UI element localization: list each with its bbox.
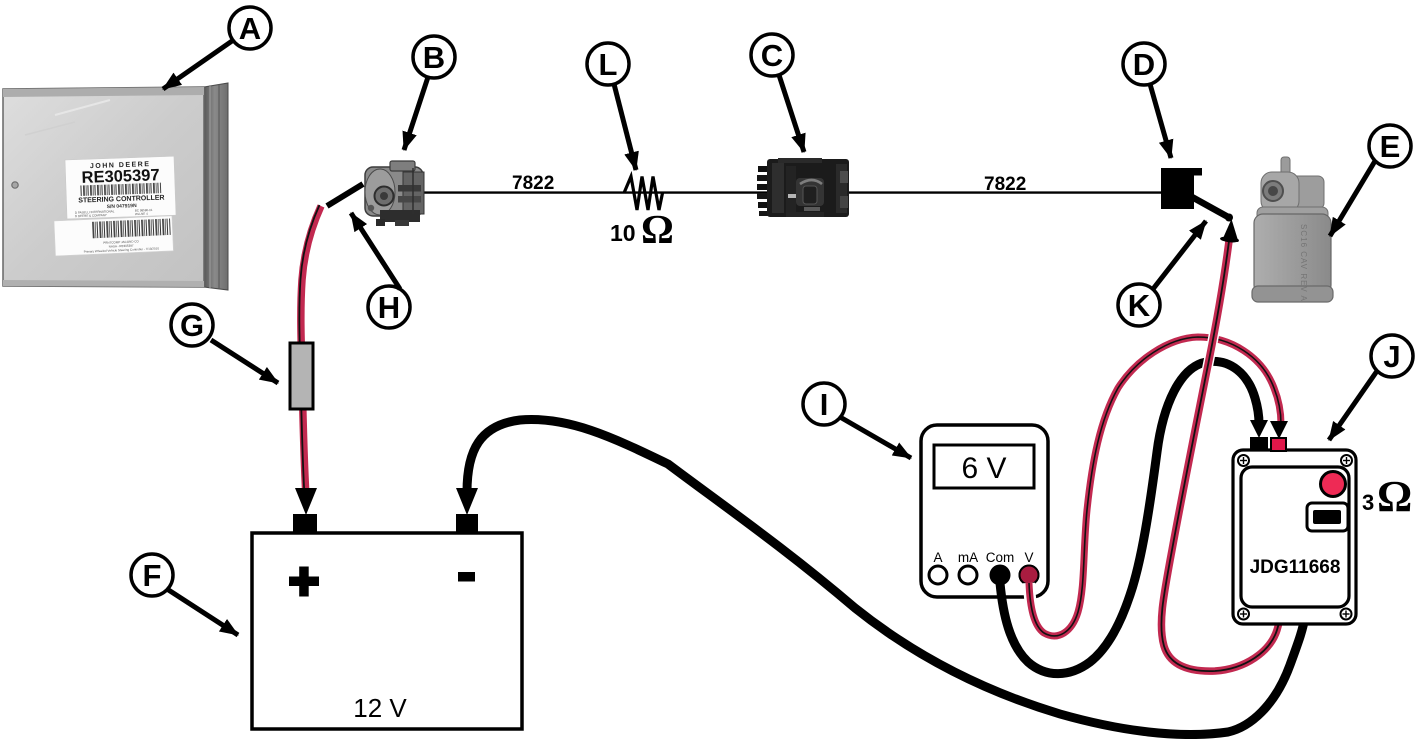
svg-text:J: J xyxy=(1383,339,1400,374)
svg-text:L: L xyxy=(599,47,618,82)
banana plug at K junction xyxy=(1220,219,1239,243)
svg-text:K: K xyxy=(1128,288,1151,323)
connector D (black plug) xyxy=(1161,168,1202,209)
red terminal xyxy=(1271,438,1286,451)
svg-text:3: 3 xyxy=(1362,490,1374,515)
resistor L (zigzag) xyxy=(624,177,663,211)
svg-text:JDG11668: JDG11668 xyxy=(1250,557,1341,578)
minus sign xyxy=(458,572,475,582)
label F xyxy=(131,554,238,635)
label H xyxy=(351,213,410,328)
svg-text:F: F xyxy=(143,558,162,593)
red test lead: V jack to tester red terminal xyxy=(1029,337,1281,636)
arrowhead into battery - terminal xyxy=(456,488,478,515)
connector B (photo) xyxy=(365,161,424,226)
svg-text:Ω: Ω xyxy=(1377,472,1412,521)
black plug in Com jack xyxy=(991,566,1010,585)
fuse holder G xyxy=(290,343,313,409)
black test lead: Com jack to tester black terminal xyxy=(1000,361,1259,673)
plus sign xyxy=(289,577,319,587)
lead stub from D to K junction xyxy=(1192,197,1229,218)
black lead stub from B xyxy=(327,184,363,206)
svg-text:mA: mA xyxy=(958,550,978,565)
connector C (photo) xyxy=(757,158,849,217)
meter jack A xyxy=(929,566,947,584)
black terminal xyxy=(1250,437,1268,451)
label I xyxy=(803,383,911,458)
red plug in V jack xyxy=(1020,566,1039,585)
meter jack V xyxy=(1020,566,1038,584)
svg-text:V: V xyxy=(1024,550,1033,565)
battery positive terminal xyxy=(293,514,317,534)
label K xyxy=(1118,221,1206,326)
battery F (12V) xyxy=(252,514,522,729)
meter display reading 6 V xyxy=(934,445,1034,488)
svg-text:6 V: 6 V xyxy=(961,452,1006,485)
label L xyxy=(587,43,636,170)
label E xyxy=(1330,125,1411,236)
arrowhead into red terminal xyxy=(1270,421,1288,439)
svg-text:E: E xyxy=(1380,129,1401,164)
meter jack mA xyxy=(959,566,977,584)
arrowhead into battery + terminal xyxy=(295,488,317,515)
red/black lead from K junction down, looped, into tester bottom xyxy=(1161,241,1282,671)
label C xyxy=(751,34,804,152)
arrowhead into black terminal xyxy=(1250,420,1268,438)
svg-text:Ω: Ω xyxy=(641,206,674,252)
battery black cable from - terminal to tester J (bottom) xyxy=(467,420,1305,735)
svg-text:B: B xyxy=(423,40,445,75)
battery negative terminal xyxy=(456,514,478,534)
label D xyxy=(1123,43,1171,158)
svg-text:A: A xyxy=(239,11,261,46)
svg-text:C: C xyxy=(761,38,783,73)
svg-text:SC16 CAV REV A: SC16 CAV REV A xyxy=(1299,224,1308,302)
red/black lead wire from H down to battery + xyxy=(299,205,321,497)
indicator LED xyxy=(1321,472,1346,497)
controller label (lower) xyxy=(54,216,173,256)
svg-text:A: A xyxy=(933,550,942,565)
svg-text:G: G xyxy=(180,308,204,343)
label G xyxy=(171,304,278,383)
meter jack Com xyxy=(991,566,1009,584)
svg-text:12 V: 12 V xyxy=(353,693,407,723)
controller label (upper) xyxy=(65,156,176,219)
tester J (JDG11668) xyxy=(1233,437,1356,624)
svg-text:Com: Com xyxy=(986,550,1015,565)
steering controller A (photo of box) xyxy=(3,83,228,290)
test switch xyxy=(1307,503,1348,531)
label A xyxy=(163,7,271,89)
svg-text:H: H xyxy=(378,290,400,325)
svg-text:10: 10 xyxy=(610,220,636,246)
label J xyxy=(1329,335,1413,440)
svg-text:7822: 7822 xyxy=(984,174,1026,195)
svg-text:WLLNE 4: WLLNE 4 xyxy=(135,212,148,216)
multimeter I xyxy=(921,425,1048,597)
main harness wire (horizontal) xyxy=(421,191,1163,193)
svg-text:I: I xyxy=(820,387,829,422)
svg-text:7822: 7822 xyxy=(512,173,554,194)
label B xyxy=(404,36,455,150)
svg-text:D: D xyxy=(1133,47,1155,82)
solenoid E (photo) xyxy=(1252,157,1333,302)
